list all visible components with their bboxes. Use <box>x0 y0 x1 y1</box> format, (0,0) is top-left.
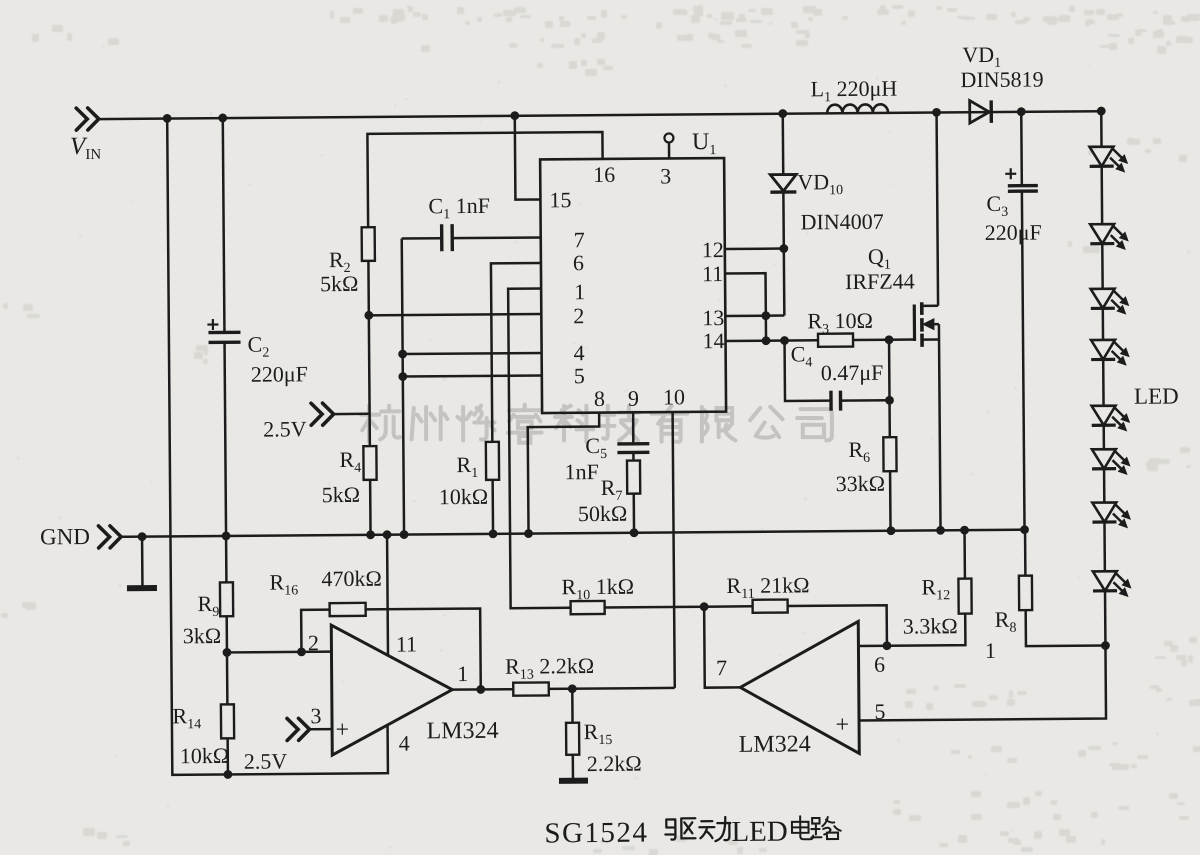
op-amp U2A left LM324 (points right) <box>331 624 453 755</box>
svg-text:3kΩ: 3kΩ <box>183 623 222 648</box>
svg-text:12: 12 <box>702 237 724 262</box>
svg-text:1: 1 <box>457 661 468 686</box>
svg-text:7: 7 <box>716 655 727 680</box>
svg-text:220μF: 220μF <box>251 361 308 386</box>
wire: left opamp pin11 gnd drop <box>386 535 389 655</box>
input port 2.5V lower (pin3) <box>298 718 309 740</box>
wire pin12 row <box>725 247 784 250</box>
svg-text:2: 2 <box>573 303 584 328</box>
svg-text:SG1524: SG1524 <box>544 817 648 850</box>
wire to LED4 <box>1102 308 1105 340</box>
wire to LED2 <box>1100 166 1103 224</box>
transistor Q1 IRFZ44 mosfet <box>913 305 916 341</box>
wire: pin1 to R10 column <box>508 288 571 608</box>
LED D6 <box>1092 449 1116 469</box>
wire: pin8 to gnd <box>528 413 600 534</box>
resistor R8 (rail to LED bottom) <box>1024 530 1027 576</box>
node dot LED bottom / R8 <box>1101 641 1110 650</box>
wire: C1/pin4/pin5 ground column <box>402 239 404 535</box>
ground symbol R15 <box>559 778 588 784</box>
svg-text:4: 4 <box>574 340 585 365</box>
wire: pin10 column down to R13 node row <box>673 412 675 688</box>
node dot R3 right / R6 top <box>885 335 894 344</box>
wire pin2 row to left opamp <box>227 650 331 653</box>
svg-text:DIN5819: DIN5819 <box>960 67 1043 93</box>
wire: output pin7 <box>704 606 740 687</box>
svg-text:3: 3 <box>660 163 671 188</box>
input port V_IN chevrons <box>88 108 99 130</box>
watermark 杭州将睿科技有限公司 <box>361 405 832 443</box>
svg-text:6: 6 <box>573 250 584 275</box>
svg-text:C1 1nF: C1 1nF <box>428 193 490 222</box>
resistor R10 1k <box>571 601 605 614</box>
LED D2 <box>1090 224 1114 244</box>
op-amp U2B right LM324 (points left) <box>740 621 860 754</box>
svg-text:5kΩ: 5kΩ <box>322 482 361 507</box>
node R14 bottom dot <box>223 770 232 779</box>
svg-text:470kΩ: 470kΩ <box>321 566 382 591</box>
wire: V_IN drop to op-amp supply (left box) <box>167 117 388 775</box>
resistor R12 3.3k <box>963 530 966 578</box>
capacitor C4 0.47uF <box>785 340 831 401</box>
svg-text:16: 16 <box>593 162 615 187</box>
svg-text:LM324: LM324 <box>739 731 811 758</box>
svg-text:10: 10 <box>663 384 685 409</box>
svg-text:7: 7 <box>574 227 585 252</box>
wire pin4 row <box>403 353 542 354</box>
resistor R3 10ohm <box>818 334 853 347</box>
wire: pin15 from rail <box>515 115 541 199</box>
wire to LED8 <box>1103 522 1106 571</box>
svg-text:2.2kΩ: 2.2kΩ <box>587 751 642 776</box>
input port 2.5V upper <box>323 403 334 425</box>
node: gnd rail dots <box>138 532 147 541</box>
node: rail junction dots <box>163 114 172 123</box>
svg-text:10kΩ: 10kΩ <box>439 484 489 509</box>
resistor R15 2.2k <box>571 689 574 723</box>
wire: left opamp output row <box>452 688 513 691</box>
wire to LED1 <box>1100 111 1103 147</box>
LED D8 <box>1093 571 1117 591</box>
wire: V_IN top rail <box>99 111 1101 119</box>
node dot R9/R14/pin2 <box>223 648 232 657</box>
wire pin13 row <box>725 314 784 317</box>
svg-text:0.47μF: 0.47μF <box>821 360 884 385</box>
LED D7 <box>1092 502 1116 522</box>
svg-text:13: 13 <box>702 305 724 330</box>
svg-text:9: 9 <box>628 386 639 411</box>
inductor L1 220uH <box>827 104 888 113</box>
diode VD10 DIN4007 <box>782 114 785 175</box>
svg-text:LED: LED <box>731 816 788 848</box>
LED D4 <box>1091 340 1115 360</box>
resistor R2 5k (top to U1 pin16, node at pin2 row) <box>367 132 603 227</box>
svg-text:5: 5 <box>574 363 585 388</box>
svg-text:6: 6 <box>874 652 885 677</box>
svg-text:5: 5 <box>874 699 885 724</box>
svg-text:3: 3 <box>310 703 321 728</box>
svg-text:11: 11 <box>702 261 723 286</box>
svg-text:4: 4 <box>399 731 410 756</box>
wire: GND rail <box>121 530 1024 537</box>
wire to LED7 <box>1103 469 1106 503</box>
svg-text:220μF: 220μF <box>985 220 1042 245</box>
svg-text:3.3kΩ: 3.3kΩ <box>903 613 958 638</box>
LED D3 <box>1091 289 1115 309</box>
svg-text:2.5V: 2.5V <box>244 748 288 773</box>
diode VD1 DIN5819 <box>970 100 990 123</box>
ground symbol left <box>141 537 144 587</box>
resistor R1 10k (pin6 to gnd) <box>491 263 542 442</box>
svg-text:11: 11 <box>396 631 417 656</box>
capacitor C1 1nF <box>402 237 442 240</box>
op-amp U1 box SG1524 <box>540 158 726 413</box>
node dot VD10/pin12 <box>779 244 788 253</box>
resistor R11 21k (feedback) <box>704 605 752 608</box>
node dots R16 <box>297 647 306 656</box>
capacitor C3 220uF <box>1020 112 1023 186</box>
svg-text:LED: LED <box>1134 383 1179 408</box>
svg-text:33kΩ: 33kΩ <box>836 471 886 496</box>
node dot R13/R15 <box>568 684 577 693</box>
wire to LED5 <box>1102 359 1105 405</box>
svg-text:GND: GND <box>40 524 90 549</box>
svg-text:1: 1 <box>985 638 996 663</box>
svg-text:14: 14 <box>702 328 724 353</box>
svg-text:1: 1 <box>574 279 585 304</box>
svg-text:+: + <box>835 712 849 738</box>
wire pin5 row <box>403 375 542 376</box>
pin 3 stub with circle <box>668 142 671 158</box>
svg-text:2.5V: 2.5V <box>263 416 307 441</box>
resistor R13 2.2k <box>513 682 549 695</box>
svg-text:1nF: 1nF <box>564 459 598 484</box>
node dot C4/R6 <box>885 396 894 405</box>
svg-text:15: 15 <box>549 187 571 212</box>
svg-text:10kΩ: 10kΩ <box>180 743 230 768</box>
node dots on rows 13/14 <box>761 311 770 320</box>
svg-text:LM324: LM324 <box>426 718 498 745</box>
wire pin11 row jog <box>725 273 766 341</box>
node dot output/R10/R11 <box>700 602 709 611</box>
svg-text:IRFZ44: IRFZ44 <box>845 269 915 295</box>
svg-text:5kΩ: 5kΩ <box>320 271 359 296</box>
svg-text:DIN4007: DIN4007 <box>801 209 884 235</box>
capacitor C2 <box>223 118 225 332</box>
wire: LED bottom to opamp pin5 <box>858 646 1106 721</box>
LED D1 <box>1090 147 1114 167</box>
wire pin2 row <box>369 314 541 315</box>
resistor R7 50k <box>632 452 635 460</box>
node pin4/pin5 dots <box>398 350 407 359</box>
svg-text:8: 8 <box>594 386 605 411</box>
resistor R6 33k <box>888 340 891 437</box>
wire pin14 row to R3 and gate <box>726 339 818 342</box>
resistor R14 10k <box>226 652 229 704</box>
LED D5 <box>1092 406 1116 426</box>
node dot R11/pin6 row <box>883 641 892 650</box>
node R2/pin2 dot <box>364 311 373 320</box>
capacitor C5 1nF (pin9) <box>632 412 635 443</box>
svg-text:50kΩ: 50kΩ <box>578 501 628 526</box>
wire to LED3 <box>1101 244 1104 289</box>
wire to LED6 <box>1102 425 1105 449</box>
resistor R16 470k feedback <box>301 610 330 652</box>
input port GND chevrons <box>110 526 121 548</box>
svg-text:+: + <box>335 717 349 743</box>
resistor R9 3k <box>225 536 228 582</box>
resistor R4 5k <box>363 446 376 480</box>
